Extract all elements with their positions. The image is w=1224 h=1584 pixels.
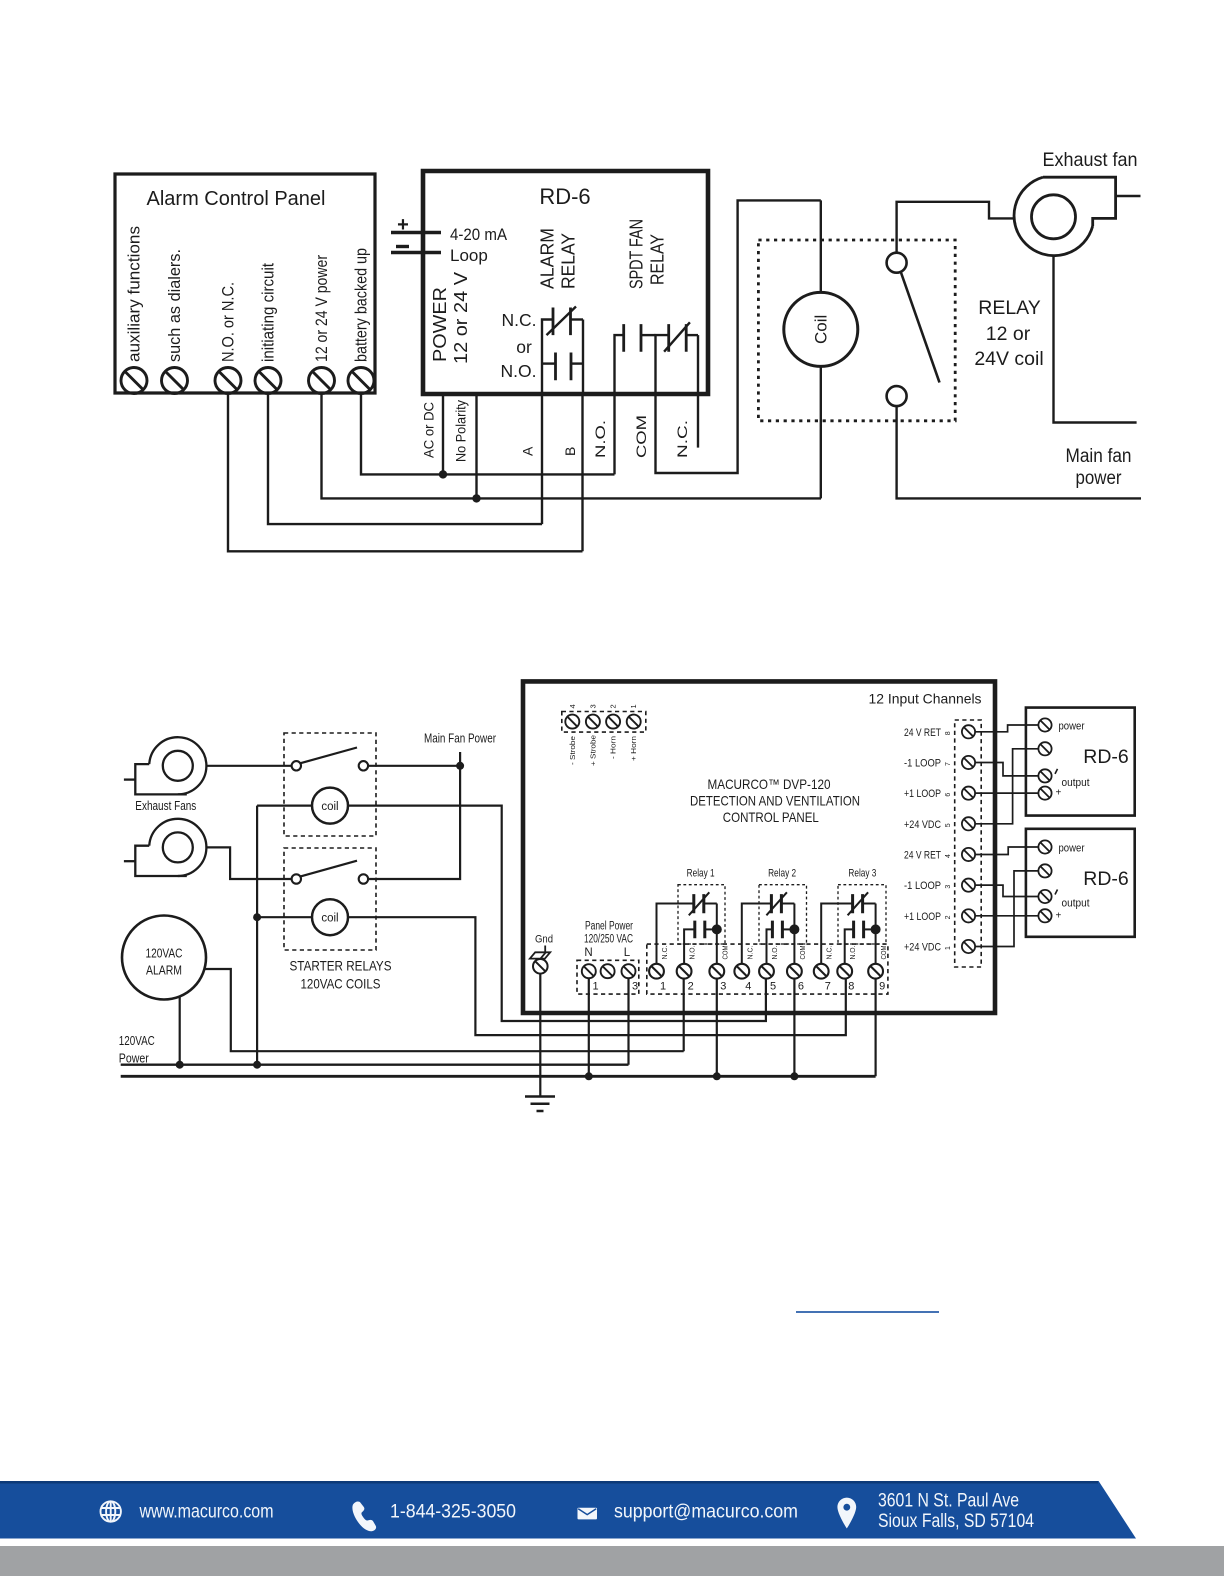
junction: coil riser on hot line bbox=[253, 1061, 261, 1069]
remote RD-6 #1 terminal 4 bbox=[1038, 787, 1051, 800]
wire: terminal 7 to relay 3 N.C. contact bbox=[821, 904, 852, 964]
starter switch 1 left contact bbox=[292, 761, 301, 770]
dashed outline: starter relay 1 bbox=[284, 733, 376, 836]
svg-text:coil: coil bbox=[321, 801, 338, 813]
svg-text:N.O.: N.O. bbox=[592, 420, 608, 458]
wire: hot riser to coil 2 bbox=[257, 916, 312, 918]
wire: main fan power stub bbox=[459, 752, 461, 766]
svg-text:RELAY: RELAY bbox=[978, 297, 1041, 319]
svg-text:SPDT FAN: SPDT FAN bbox=[627, 219, 647, 289]
phone icon bbox=[352, 1502, 376, 1532]
remote RD-6 #2 box bbox=[1026, 829, 1135, 937]
svg-text:N.C.: N.C. bbox=[674, 420, 690, 458]
svg-text:1: 1 bbox=[945, 946, 952, 950]
envelope icon bbox=[578, 1508, 598, 1520]
location pin icon bbox=[837, 1498, 856, 1529]
svg-text:MACURCO™ DVP-120: MACURCO™ DVP-120 bbox=[708, 776, 831, 792]
wire: terminal 4 to relay 2 N.C. contact bbox=[742, 904, 772, 964]
svg-text:COM: COM bbox=[720, 946, 729, 960]
DVP relay terminal 4 bbox=[734, 964, 749, 979]
starter switch 2 right contact bbox=[359, 874, 368, 883]
starter relay coil L1 bbox=[312, 788, 348, 824]
wire: +24 VDC ch5 to RD-6 #1 power- bbox=[975, 749, 1038, 824]
dashed outline: input channel terminals bbox=[955, 720, 982, 967]
svg-text:3: 3 bbox=[720, 981, 726, 993]
svg-text:N.C.: N.C. bbox=[502, 310, 537, 330]
DVP relay terminal 6 bbox=[787, 964, 802, 979]
DVP relay terminal 9 bbox=[868, 964, 883, 979]
dashed outline: external relay bbox=[758, 240, 955, 421]
svg-text:Alarm Control Panel: Alarm Control Panel bbox=[147, 188, 326, 210]
svg-text:-1 LOOP: -1 LOOP bbox=[904, 757, 941, 769]
svg-text:4: 4 bbox=[568, 704, 577, 708]
junction: main fan power node bbox=[456, 762, 464, 770]
remote RD-6 #1 terminal 2 bbox=[1038, 742, 1051, 755]
wire: switch bottom to main fan power bbox=[897, 406, 1141, 498]
svg-text:STARTER RELAYS: STARTER RELAYS bbox=[290, 958, 392, 974]
svg-text:+1 LOOP: +1 LOOP bbox=[904, 911, 941, 923]
DVP relay terminal 1 bbox=[649, 964, 664, 979]
output minus tick (remote RD-6 #1) bbox=[1055, 769, 1058, 774]
wire: riser to terminal 2 bbox=[683, 978, 685, 1051]
wire: neutral riser to relay 3 COM terminal 9 bbox=[874, 979, 876, 1077]
alarm relay N.C. contact slash bbox=[547, 307, 577, 336]
relay coil K3 circle bbox=[784, 292, 858, 366]
svg-text:COM: COM bbox=[879, 946, 888, 960]
relay 3 N.C. contact plates bbox=[853, 894, 863, 913]
relay 2 N.O. contact plates bbox=[772, 921, 782, 939]
starter switch 2 blade bbox=[301, 861, 358, 877]
junction: hot riser to coil 2 bbox=[253, 913, 261, 921]
wire: A riser to alarm relay N.O. contact bbox=[542, 362, 556, 364]
svg-text:+: + bbox=[1056, 910, 1062, 921]
svg-text:RD-6: RD-6 bbox=[1083, 746, 1129, 768]
earth ground symbol bbox=[525, 1097, 555, 1112]
svg-text:24 V RET: 24 V RET bbox=[904, 849, 941, 861]
svg-text:www.macurco.com: www.macurco.com bbox=[139, 1501, 274, 1523]
svg-text:RELAY: RELAY bbox=[559, 233, 579, 289]
svg-text:N.O. or N.C.: N.O. or N.C. bbox=[219, 282, 238, 362]
svg-text:12 Input Channels: 12 Input Channels bbox=[869, 691, 982, 707]
wire: terminal 1 to relay 1 N.C. contact bbox=[657, 904, 694, 964]
input channel terminal 3 bbox=[962, 879, 975, 892]
svg-text:coil: coil bbox=[321, 913, 338, 925]
junction: relay 2 N.O. on COM riser bbox=[789, 924, 799, 934]
wire: 24V RET ch8 to RD-6 #1 power bbox=[975, 725, 1038, 732]
remote RD-6 #2 terminal 4 bbox=[1038, 909, 1051, 922]
svg-text:8: 8 bbox=[945, 731, 952, 735]
svg-text:1: 1 bbox=[660, 981, 666, 993]
svg-text:Relay 3: Relay 3 bbox=[848, 868, 876, 880]
alarm panel terminal 5 bbox=[309, 368, 335, 394]
wire: relay 2 COM terminal 6 to neutral line bbox=[793, 979, 795, 1077]
wire: 120VAC neutral line bbox=[121, 1075, 876, 1078]
wire: COM to external relay coil bbox=[656, 200, 821, 473]
svg-text:output: output bbox=[1062, 898, 1090, 910]
battery polarity symbol BT1 bbox=[391, 233, 441, 253]
wire: relay 3 N.C. contact to COM riser bbox=[863, 903, 876, 905]
wire: fan M3 to starter switch 2 bbox=[206, 847, 291, 879]
panel power terminal N bbox=[582, 964, 596, 978]
svg-text:120/250 VAC: 120/250 VAC bbox=[584, 934, 633, 946]
svg-text:Relay 2: Relay 2 bbox=[768, 868, 796, 880]
Macurco DVP-120 control panel box U3 bbox=[523, 681, 995, 1013]
junction: No-Polarity tap bbox=[472, 494, 480, 502]
wire: +24 VDC ch1 to RD-6 #2 power- bbox=[975, 871, 1038, 947]
svg-text:Main fan: Main fan bbox=[1066, 446, 1132, 467]
svg-text:4: 4 bbox=[745, 981, 751, 993]
junction: POWER tap on power bus bbox=[439, 470, 447, 478]
svg-text:Sioux Falls, SD 57104: Sioux Falls, SD 57104 bbox=[878, 1511, 1034, 1532]
wire: initiating circuit terminal to pin A bbox=[268, 393, 542, 524]
svg-text:power: power bbox=[1059, 721, 1085, 733]
svg-text:Main Fan Power: Main Fan Power bbox=[424, 732, 496, 746]
svg-text:+: + bbox=[1056, 788, 1062, 799]
svg-text:12 or 24 V: 12 or 24 V bbox=[451, 272, 471, 364]
svg-text:12 or: 12 or bbox=[986, 323, 1031, 345]
alarm panel terminal 2 bbox=[162, 368, 188, 394]
svg-text:1: 1 bbox=[629, 704, 638, 708]
input channel terminal 8 bbox=[962, 725, 975, 738]
wire: 24V RET ch4 to RD-6 #2 power bbox=[975, 847, 1038, 854]
svg-text:Power: Power bbox=[119, 1051, 150, 1066]
svg-text:7: 7 bbox=[825, 981, 831, 993]
output minus tick (remote RD-6 #2) bbox=[1055, 890, 1058, 895]
svg-text:+24 VDC: +24 VDC bbox=[904, 941, 941, 953]
alarm relay N.O. contact plates bbox=[556, 353, 572, 381]
wire: switch top to exhaust fan bbox=[897, 202, 1014, 253]
remote RD-6 #2 terminal 1 bbox=[1038, 840, 1051, 853]
wire: alarm N.O. contact to B riser bbox=[571, 362, 583, 364]
dashed outline: panel power terminals bbox=[577, 960, 639, 994]
horn/strobe terminal 4 bbox=[565, 715, 579, 729]
wire: relay 1 COM terminal 3 to neutral line bbox=[716, 979, 718, 1077]
svg-text:RELAY: RELAY bbox=[648, 234, 668, 285]
svg-text:+ Horn: + Horn bbox=[629, 736, 638, 761]
svg-text:Coil: Coil bbox=[811, 315, 830, 344]
wire: fan N.C. contact lead bbox=[686, 334, 698, 336]
svg-text:DETECTION AND VENTILATION: DETECTION AND VENTILATION bbox=[690, 793, 860, 809]
wire: switch 2 to main fan power node bbox=[368, 766, 460, 879]
junction: relay 1 N.O. on COM riser bbox=[712, 924, 722, 934]
svg-text:24V coil: 24V coil bbox=[974, 348, 1043, 370]
svg-text:120VAC COILS: 120VAC COILS bbox=[301, 976, 381, 992]
relay switch blade bbox=[901, 272, 940, 383]
panel power terminal (mid) bbox=[601, 964, 615, 978]
wire: alarm to DVP relay 1 N.O. terminal 2 bbox=[204, 969, 683, 1051]
wire: coil top lead bbox=[820, 200, 822, 292]
svg-text:Gnd: Gnd bbox=[535, 934, 553, 946]
hyperlink underline bbox=[796, 1311, 939, 1313]
svg-text:2: 2 bbox=[688, 981, 694, 993]
svg-text:+: + bbox=[397, 214, 409, 236]
input channel terminal 7 bbox=[962, 756, 975, 769]
wire: hot line riser to panel power L bbox=[627, 978, 629, 1064]
svg-text:6: 6 bbox=[945, 793, 952, 797]
svg-text:+1 LOOP: +1 LOOP bbox=[904, 788, 941, 800]
wire: coil 2 to DVP relay 3 N.O. terminal 8 bbox=[348, 917, 846, 1035]
junction: N on neutral line bbox=[585, 1072, 593, 1080]
exhaust fan M1 (blower icon) bbox=[1014, 177, 1116, 255]
wire: +1 LOOP ch6 to RD-6 #1 + bbox=[975, 792, 1038, 794]
input channel terminal 2 bbox=[962, 909, 975, 922]
svg-text:120VAC: 120VAC bbox=[119, 1033, 155, 1048]
svg-text:RD-6: RD-6 bbox=[539, 184, 590, 209]
wire: panel power N to neutral line bbox=[588, 978, 590, 1076]
alarm panel terminal 4 bbox=[255, 368, 281, 394]
wire: relay 3 COM riser bbox=[875, 904, 877, 964]
svg-text:5: 5 bbox=[770, 981, 776, 993]
svg-text:8: 8 bbox=[848, 981, 854, 993]
wire: relay 1 COM riser bbox=[716, 904, 718, 964]
svg-text:No Polarity: No Polarity bbox=[453, 400, 469, 462]
DVP relay terminal 7 bbox=[814, 964, 829, 979]
svg-text:such as dialers.: such as dialers. bbox=[165, 249, 184, 362]
svg-text:Exhaust fan: Exhaust fan bbox=[1043, 149, 1138, 171]
svg-text:CONTROL PANEL: CONTROL PANEL bbox=[723, 809, 819, 825]
svg-text:battery backed up: battery backed up bbox=[352, 248, 371, 362]
svg-text:N.O.: N.O. bbox=[848, 946, 857, 960]
input channel terminal 4 bbox=[962, 848, 975, 861]
svg-text:4: 4 bbox=[945, 854, 952, 858]
wire: relay 2 COM riser bbox=[793, 904, 795, 964]
wire: relay 1 N.O. contact to COM riser bbox=[705, 928, 717, 930]
wire: fan relay N.C. stub (unconnected) bbox=[697, 394, 699, 448]
svg-text:9: 9 bbox=[879, 981, 885, 993]
svg-text:+ Strobe: + Strobe bbox=[588, 735, 597, 766]
relay 2 N.C. contact plates bbox=[771, 894, 781, 913]
wire: fan M2 to starter switch 1 bbox=[206, 765, 291, 767]
svg-text:24 V RET: 24 V RET bbox=[904, 727, 941, 739]
relay 1 N.C. contact slash bbox=[689, 892, 710, 915]
relay switch top contact bbox=[887, 253, 907, 273]
minus polarity mark bbox=[396, 245, 409, 248]
svg-text:L: L bbox=[624, 947, 631, 959]
svg-text:3: 3 bbox=[632, 981, 638, 993]
wire: 12/24V power terminal to coil bottom bus bbox=[322, 393, 822, 498]
svg-text:AC or DC: AC or DC bbox=[421, 402, 437, 458]
svg-text:Loop: Loop bbox=[450, 246, 488, 265]
wire: terminal 2 to relay 1 N.O. contact bbox=[684, 929, 695, 964]
input channel terminal 1 bbox=[962, 940, 975, 953]
dashed outline: Relay 1 bbox=[678, 885, 725, 944]
svg-text:ALARM: ALARM bbox=[538, 228, 558, 289]
remote RD-6 #1 terminal 1 bbox=[1038, 718, 1051, 731]
wire: pin A lead down bbox=[541, 394, 543, 524]
wire: fan relay N.O. lead down to power bus bbox=[613, 394, 615, 474]
wire: relay 2 N.C. contact to COM riser bbox=[781, 903, 794, 905]
svg-text:initiating circuit: initiating circuit bbox=[259, 263, 278, 362]
footer blue banner bbox=[0, 1481, 1136, 1539]
wire: coil bottom lead bbox=[820, 366, 822, 498]
alarm bell A1 (120VAC ALARM) bbox=[122, 916, 206, 1000]
svg-text:N.O.: N.O. bbox=[501, 361, 537, 381]
alarm panel terminal 6 bbox=[348, 368, 374, 394]
wire: relay 1 N.C. contact to COM riser bbox=[704, 903, 717, 905]
panel power terminal L bbox=[622, 964, 636, 978]
relay 1 N.O. contact plates bbox=[695, 921, 705, 939]
wire: fan N.O. contact to COM riser bbox=[641, 334, 656, 336]
svg-text:COM: COM bbox=[633, 415, 649, 458]
svg-text:-1 LOOP: -1 LOOP bbox=[904, 880, 941, 892]
exhaust fan M2 (blower icon) bbox=[124, 737, 206, 794]
ground terminal stub bbox=[544, 946, 546, 953]
wire: exhaust fan return to main fan power bbox=[1054, 257, 1137, 423]
wire: switch 1 to main fan power node bbox=[368, 765, 460, 767]
wire: exhaust fan outlet stub bbox=[1116, 195, 1141, 197]
wire: pin B lead down bbox=[581, 394, 583, 551]
svg-text:1-844-325-3050: 1-844-325-3050 bbox=[390, 1501, 516, 1523]
relay switch bottom contact bbox=[887, 386, 907, 406]
svg-text:or: or bbox=[516, 337, 532, 357]
relay 2 N.C. contact slash bbox=[766, 892, 787, 915]
wire: battery backed up terminal to power bus bbox=[361, 393, 615, 474]
svg-text:2: 2 bbox=[945, 915, 952, 919]
svg-text:POWER: POWER bbox=[430, 287, 450, 362]
wire: COM riser to fan relay N.C. contact bbox=[656, 335, 669, 394]
remote RD-6 #2 terminal 2 bbox=[1038, 864, 1051, 877]
alarm relay N.C. contact K1 plates bbox=[553, 308, 571, 336]
alarm control panel box U1 bbox=[115, 174, 375, 393]
DVP relay terminal 3 bbox=[709, 964, 724, 979]
svg-text:ALARM: ALARM bbox=[146, 963, 182, 978]
svg-text:N.O.: N.O. bbox=[770, 946, 779, 960]
wire: terminal N.O. riser to fan relay N.O. contact bbox=[615, 335, 624, 394]
ground terminal screw bbox=[533, 959, 548, 974]
remote RD-6 #2 terminal 3 bbox=[1038, 890, 1051, 903]
alarm panel terminal 3 bbox=[215, 368, 241, 394]
junction: alarm on hot line bbox=[176, 1061, 184, 1069]
RD-6 relay module box U2 bbox=[423, 171, 708, 394]
input channel terminal 5 bbox=[962, 817, 975, 830]
svg-text:Panel Power: Panel Power bbox=[585, 921, 633, 933]
svg-text:3: 3 bbox=[945, 885, 952, 889]
exhaust fan M3 (blower icon) bbox=[124, 819, 206, 876]
wire: 120VAC hot line bbox=[121, 1063, 629, 1065]
svg-text:2: 2 bbox=[609, 704, 618, 708]
wire: 120VAC hot riser to starter coils bbox=[256, 806, 258, 1065]
svg-text:power: power bbox=[1076, 468, 1123, 489]
relay 1 N.C. contact plates bbox=[694, 894, 704, 913]
fan relay N.C. contact slash bbox=[664, 322, 690, 351]
horn/strobe terminal 2 bbox=[606, 715, 620, 729]
starter switch 1 blade bbox=[301, 748, 358, 764]
wire: RD-6 No-Polarity lead down bbox=[475, 394, 477, 498]
junction: relay 3 N.O. on COM riser bbox=[871, 924, 881, 934]
svg-text:- Horn: - Horn bbox=[609, 736, 618, 759]
svg-text:- Strobe: - Strobe bbox=[568, 736, 577, 765]
junction: terminal 6 on neutral line bbox=[790, 1072, 798, 1080]
DVP relay terminal 8 bbox=[837, 964, 852, 979]
dashed outline: horn/strobe terminals bbox=[562, 712, 646, 733]
svg-text:RD-6: RD-6 bbox=[1083, 868, 1129, 890]
dashed outline: starter relay 2 bbox=[284, 848, 376, 950]
junction: terminal 3 on neutral line bbox=[713, 1072, 721, 1080]
svg-text:6: 6 bbox=[798, 981, 804, 993]
remote RD-6 #1 terminal 3 bbox=[1038, 769, 1051, 782]
DVP relay terminal 2 bbox=[677, 964, 692, 979]
globe icon bbox=[101, 1501, 121, 1521]
wire: terminal A riser to alarm relay N.C. contact bbox=[542, 320, 553, 395]
svg-text:12 or 24 V power: 12 or 24 V power bbox=[312, 255, 331, 362]
DVP relay terminal 5 bbox=[759, 964, 774, 979]
svg-text:5: 5 bbox=[945, 823, 952, 827]
wire: coil 1 to DVP relay 2 N.O. terminal 5 bbox=[348, 806, 766, 1021]
svg-text:Relay 1: Relay 1 bbox=[687, 868, 715, 880]
dashed outline: relay terminal strip bbox=[647, 944, 888, 994]
wire: terminal N.C. riser bbox=[697, 335, 699, 394]
dashed outline: Relay 3 bbox=[838, 885, 886, 944]
svg-text:+24 VDC: +24 VDC bbox=[904, 819, 941, 831]
svg-text:N.C.: N.C. bbox=[825, 946, 834, 960]
horn/strobe terminal 1 bbox=[627, 715, 641, 729]
wire: terminal 5 to relay 2 N.O. contact bbox=[767, 929, 773, 964]
svg-text:120VAC: 120VAC bbox=[146, 946, 183, 961]
svg-text:N.C.: N.C. bbox=[745, 946, 754, 960]
starter switch 1 right contact bbox=[359, 761, 368, 770]
wire: -1 LOOP ch7 to RD-6 #1 output bbox=[975, 762, 1038, 775]
ground terminal flag bbox=[530, 952, 550, 958]
svg-text:auxiliary functions: auxiliary functions bbox=[125, 226, 144, 362]
wire: -1 LOOP ch3 to RD-6 #2 output bbox=[975, 885, 1038, 896]
svg-text:Exhaust Fans: Exhaust Fans bbox=[135, 798, 196, 813]
svg-text:7: 7 bbox=[945, 762, 952, 766]
svg-text:N.O.: N.O. bbox=[688, 946, 697, 960]
svg-text:3: 3 bbox=[588, 704, 597, 708]
wire: RD-6 POWER lead down bbox=[442, 394, 444, 474]
wire: +1 LOOP ch2 to RD-6 #2 + bbox=[975, 915, 1038, 917]
svg-text:4-20 mA: 4-20 mA bbox=[450, 225, 508, 244]
remote RD-6 #1 box bbox=[1026, 708, 1135, 816]
wire: hot riser to coil 1 bbox=[257, 804, 312, 806]
svg-text:B: B bbox=[562, 447, 578, 456]
svg-text:3601 N St. Paul Ave: 3601 N St. Paul Ave bbox=[878, 1491, 1019, 1512]
relay 3 N.O. contact plates bbox=[854, 921, 864, 939]
wire: relay 2 N.O. contact to COM riser bbox=[782, 928, 794, 930]
footer gray bar bbox=[0, 1546, 1224, 1576]
svg-text:COM: COM bbox=[798, 946, 807, 960]
svg-text:A: A bbox=[520, 446, 536, 456]
wire: terminal 8 to relay 3 N.O. contact bbox=[845, 929, 854, 964]
svg-text:1: 1 bbox=[593, 981, 599, 993]
wire: alarm to 120VAC hot line bbox=[179, 996, 181, 1064]
horn/strobe terminal 3 bbox=[586, 715, 600, 729]
fan relay N.O. contact K2 plates bbox=[624, 324, 641, 352]
dashed outline: Relay 2 bbox=[759, 885, 807, 944]
relay 3 N.C. contact slash bbox=[848, 892, 869, 915]
svg-text:output: output bbox=[1062, 777, 1090, 789]
fan relay N.C. contact plates bbox=[669, 324, 687, 352]
svg-text:N: N bbox=[584, 947, 592, 959]
starter relay coil L2 bbox=[312, 899, 348, 935]
alarm panel terminal 1 bbox=[121, 368, 147, 394]
svg-text:power: power bbox=[1059, 843, 1085, 855]
wire: terminal B riser bbox=[582, 320, 584, 395]
wire: ground terminal to earth ground bbox=[539, 974, 541, 1097]
svg-text:N.C.: N.C. bbox=[660, 946, 669, 960]
svg-text:support@macurco.com: support@macurco.com bbox=[614, 1501, 798, 1523]
wire: relay 3 N.O. contact to COM riser bbox=[864, 928, 876, 930]
input channel terminal 6 bbox=[962, 787, 975, 800]
wire: N.O./N.C. terminal to pin B bbox=[228, 393, 583, 551]
wire: alarm N.C. contact to terminal B riser bbox=[571, 318, 584, 320]
starter switch 2 left contact bbox=[292, 874, 301, 883]
